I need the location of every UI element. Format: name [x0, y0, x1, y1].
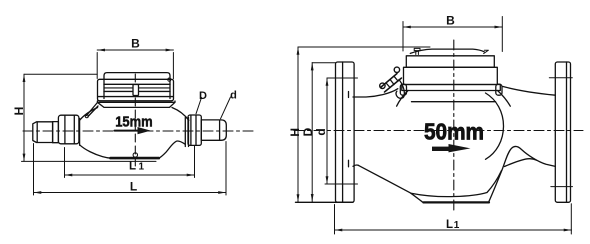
- register base right lug: [496, 84, 502, 95]
- register base plate: [97, 101, 175, 107]
- right flange inner line: [566, 62, 568, 202]
- register band 1: [406, 56, 494, 68]
- svg-text:H: H: [288, 128, 302, 137]
- register lid profile arc (right meter): [410, 49, 484, 53]
- svg-text:15mm: 15mm: [115, 113, 153, 130]
- left flange pipe tabs: [348, 92, 350, 167]
- seal wire pennant at register bottom-left: [87, 103, 99, 117]
- body joint line across neck: [412, 101, 496, 103]
- body bottom-right curve: [159, 141, 186, 158]
- svg-text:D: D: [301, 127, 315, 136]
- body bottom flat thick: [111, 157, 159, 160]
- body bottom-left pipe line: [353, 165, 359, 166]
- dim L1 (left) arrows: [65, 174, 195, 177]
- right coupling nut body: [188, 115, 201, 145]
- register center screw: [133, 85, 139, 96]
- right coupling nut facet lines: [191, 115, 196, 145]
- body bottom-left slope: [359, 165, 424, 202]
- svg-text:d: d: [230, 90, 237, 102]
- dim L (left) extension lines: [34, 142, 227, 196]
- svg-text:L: L: [129, 161, 136, 173]
- right flange hub crossbar top: [549, 77, 572, 79]
- dim H (left) extension bottom: [22, 160, 157, 162]
- dim D (right) line: [311, 63, 313, 202]
- body bottom-right steep rise to peak: [489, 147, 555, 202]
- dim D (right) extension top: [312, 62, 335, 64]
- centerline vertical (left meter): [134, 74, 136, 166]
- register seal hole circle: [168, 78, 171, 81]
- register lid right flick: [484, 50, 489, 53]
- left flange inner line: [342, 62, 344, 202]
- centerline horizontal (left meter): [23, 130, 253, 132]
- svg-text:50mm: 50mm: [424, 119, 484, 145]
- body bottom-left curve: [80, 145, 111, 158]
- left flange hub crossbar top: [327, 77, 358, 79]
- dim B (left) line: [97, 49, 173, 51]
- left flange hub crossbar bottom: [325, 183, 358, 185]
- centerline vertical (right meter): [453, 40, 455, 212]
- dim L1 (right) arrows: [335, 229, 572, 232]
- dim L1 (left) line: [65, 174, 195, 176]
- dim B (right) extension lines: [403, 17, 502, 52]
- svg-text:1: 1: [139, 162, 145, 173]
- svg-text:H: H: [12, 107, 26, 116]
- register rim ring line 2: [104, 90, 170, 92]
- left hex collar: [53, 122, 59, 143]
- right tailpiece end line: [219, 120, 221, 140]
- dim H (left) arrows: [23, 74, 26, 161]
- svg-text:1: 1: [454, 220, 460, 231]
- register rim ring line 1b: [104, 87, 170, 89]
- svg-text:D: D: [199, 90, 207, 102]
- register dome lid: [104, 73, 170, 99]
- dim H (right) line: [297, 47, 299, 202]
- dim H (right) extension bottom: [296, 201, 354, 203]
- dim L (left) line: [34, 192, 227, 194]
- body top-left pipe and shoulder: [353, 89, 398, 97]
- svg-text:B: B: [446, 14, 455, 28]
- dim d (right) arrows: [326, 78, 329, 184]
- body bottom drain circle: [133, 153, 137, 157]
- body left shoulder: [79, 108, 97, 121]
- leader line d (left meter): [221, 97, 231, 119]
- centerline horizontal (right meter): [294, 130, 583, 132]
- register band 2: [404, 67, 498, 84]
- dim H (right) extension top: [298, 46, 430, 48]
- dim L1 (right) extension lines: [335, 204, 572, 234]
- inner cone curve right: [505, 159, 537, 167]
- body outlet boss face: [185, 118, 188, 147]
- dim H (left) extension top: [24, 73, 97, 75]
- svg-text:d: d: [314, 128, 328, 135]
- bulge arc (measuring chamber): [486, 93, 504, 159]
- inner channel curve left: [411, 171, 502, 197]
- dim D (right) arrows: [311, 63, 314, 202]
- register lid bolt (left): [414, 48, 420, 50]
- svg-text:B: B: [131, 37, 140, 51]
- dim H (right) arrows: [297, 47, 300, 202]
- right tailpiece: [201, 120, 226, 140]
- left tailpiece end line: [36, 122, 38, 142]
- dim B (left) arrows: [97, 49, 173, 52]
- dim B (right) line: [403, 26, 502, 28]
- leader line D (left meter): [196, 98, 202, 114]
- neck flare right: [498, 91, 511, 107]
- right flange hub crossbar bottom: [551, 186, 573, 188]
- body right shoulder: [172, 108, 189, 121]
- flow arrow (right meter): [432, 147, 449, 151]
- dim L1 (right) line: [335, 229, 572, 231]
- svg-text:L: L: [446, 219, 453, 231]
- neck flare left: [397, 91, 408, 107]
- body top-right shoulder slope: [503, 87, 555, 96]
- dim B (right) arrows: [403, 26, 502, 29]
- body bottom flat thick: [424, 201, 490, 203]
- svg-text:L: L: [130, 180, 137, 194]
- dim H (left) line: [23, 74, 25, 161]
- left flange outer: [336, 62, 355, 202]
- dim L (left) arrows: [34, 191, 227, 194]
- tamper seal assembly (angled bolt with circles and hook): [381, 74, 402, 93]
- left coupling nut body: [58, 115, 79, 144]
- left coupling nut facet lines: [65, 116, 74, 144]
- dim L1 (left) extension lines: [65, 146, 195, 178]
- right flange outer: [555, 62, 570, 202]
- register rim ring line 3: [98, 96, 173, 98]
- register base left lug: [400, 84, 406, 95]
- register rim ring line 1: [104, 83, 170, 85]
- dim d (right) line: [326, 78, 328, 184]
- left tailpiece: [33, 122, 53, 143]
- flow arrow (left meter): [115, 130, 140, 132]
- dim B (left) extension lines: [97, 53, 173, 79]
- register rim box: [98, 79, 174, 101]
- register base band: [402, 85, 501, 91]
- body inlet boss face: [79, 119, 81, 146]
